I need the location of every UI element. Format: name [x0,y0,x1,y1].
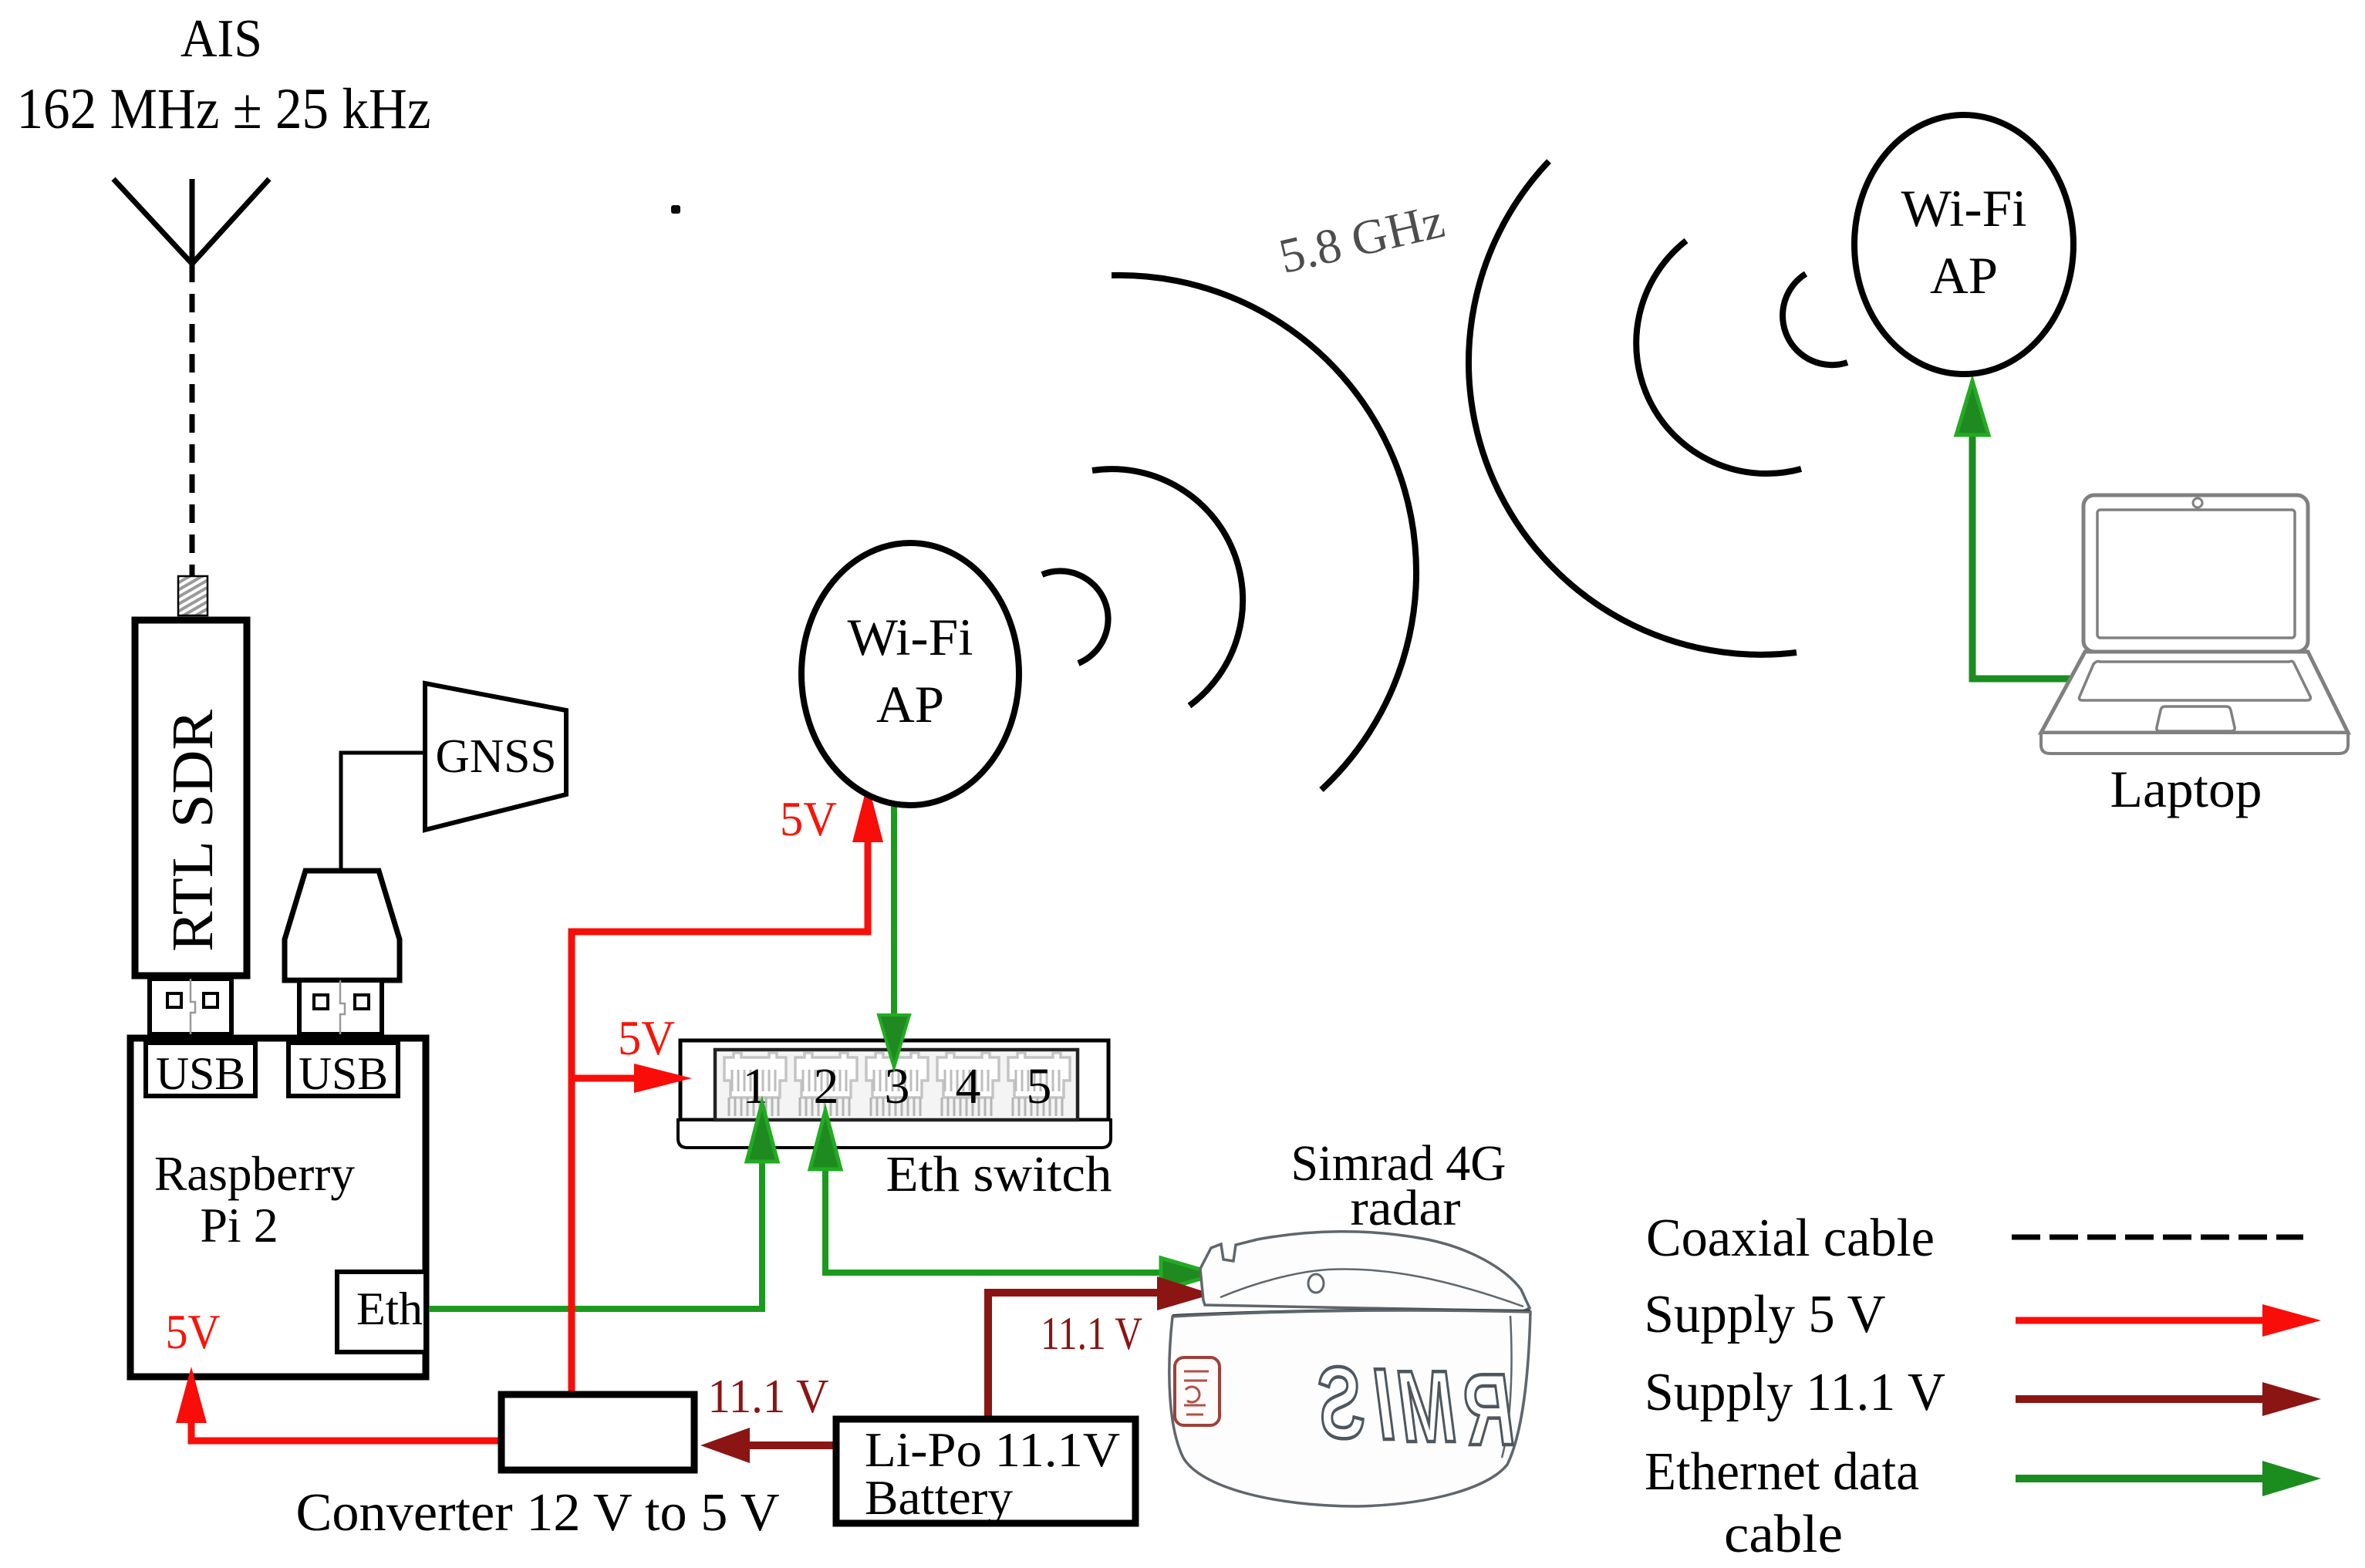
wire Ethernet switch port 2 to radar [825,1166,1165,1273]
arrow 5V into Eth switch [634,1064,692,1093]
USB plug of GNSS receiver [285,871,400,1034]
svg-text:M: M [1398,1349,1456,1463]
wifi waves right AP [1469,161,1847,655]
arrow 11.1V into radar [1157,1276,1213,1310]
svg-text:Battery: Battery [865,1470,1013,1525]
wire coaxial dashed [190,264,195,576]
svg-text:5V: 5V [618,1010,675,1065]
USB plug of RTL SDR [150,979,231,1034]
arrow 5V into Raspberry Pi [176,1367,207,1423]
svg-text:USB: USB [299,1048,388,1099]
svg-text:Pi 2: Pi 2 [200,1198,278,1253]
svg-text:3: 3 [885,1058,910,1114]
svg-text:11.1 V: 11.1 V [1041,1308,1142,1359]
svg-text:11.1 V: 11.1 V [708,1371,829,1423]
wire supply 5V crossing overlay [568,1280,575,1338]
svg-text:radar: radar [1351,1180,1461,1236]
component Raspberry Pi 2 [130,1038,426,1377]
logo patch on radar [1175,1357,1220,1425]
svg-text:USB: USB [156,1048,245,1099]
svg-text:R: R [1465,1352,1514,1466]
antenna GNSS [425,683,566,830]
svg-text:S: S [1319,1345,1365,1459]
svg-text:AP: AP [1930,246,1998,305]
arrow Ethernet into port 2 [810,1111,841,1169]
wire Ethernet laptop to Wi-Fi AP [1972,432,2070,679]
arrow Ethernet into port 3 [879,1015,909,1067]
svg-text:I: I [1375,1347,1395,1461]
arrow 5V into Wi-Fi AP [852,783,883,842]
wire supply 11.1V battery to converter [741,1442,833,1449]
wire supply 11.1V battery to radar [988,1293,1161,1416]
arrow Ethernet into port 1 [747,1103,778,1162]
port USB 1 [146,1043,255,1096]
svg-text:Supply 5 V: Supply 5 V [1645,1285,1886,1344]
svg-text:Laptop: Laptop [2110,760,2262,818]
wire Ethernet Wi-Fi AP to switch port 3 [891,803,897,1026]
svg-text:Coaxial cable: Coaxial cable [1646,1209,1935,1268]
component Li-Po battery [836,1419,1135,1523]
node stray dot [671,205,680,214]
svg-text:162 MHz ± 25 kHz: 162 MHz ± 25 kHz [17,77,431,141]
svg-text:4: 4 [956,1058,981,1114]
svg-text:Ethernet data: Ethernet data [1645,1442,1919,1502]
svg-text:AP: AP [876,675,944,733]
svg-text:AIS: AIS [180,9,262,69]
component Wi-Fi AP right [1854,115,2073,374]
connector SMA hatched [178,576,207,615]
svg-text:5: 5 [1027,1058,1052,1114]
component Simrad 4G radar dome [1169,1232,1530,1506]
component laptop [2041,495,2348,754]
component converter 12V to 5V [501,1394,694,1470]
wire GNSS antenna to USB plug [341,753,427,871]
port Eth of Raspberry Pi [337,1272,426,1352]
svg-text:Supply 11.1 V: Supply 11.1 V [1645,1363,1945,1422]
svg-text:RTL SDR: RTL SDR [160,710,225,952]
arrow Ethernet into radar [1161,1258,1216,1290]
svg-text:5V: 5V [780,791,837,846]
svg-text:Eth: Eth [356,1283,423,1334]
component RTL SDR [135,620,247,976]
svg-text:Raspberry: Raspberry [154,1146,355,1201]
wifi waves left AP [1042,275,1416,790]
svg-text:Eth switch: Eth switch [886,1146,1112,1202]
svg-text:cable: cable [1724,1505,1843,1564]
wire supply 5V converter output riser [191,818,868,1441]
svg-text:Wi-Fi: Wi-Fi [848,608,973,666]
component Eth switch body [678,1040,1111,1148]
antenna AIS [113,179,269,264]
svg-text:GNSS: GNSS [436,730,557,783]
svg-text:Li-Po 11.1V: Li-Po 11.1V [865,1422,1120,1477]
wire Ethernet Pi to switch port 1 [429,1157,762,1309]
component Wi-Fi AP left [801,543,1019,805]
arrow Ethernet into right Wi-Fi AP [1956,381,1989,435]
arrow 11.1V into converter [700,1428,750,1463]
svg-text:Wi-Fi: Wi-Fi [1901,179,2027,238]
port USB 2 [288,1043,398,1096]
svg-text:Converter 12 V to 5 V: Converter 12 V to 5 V [296,1483,780,1543]
svg-text:5V: 5V [166,1304,221,1359]
